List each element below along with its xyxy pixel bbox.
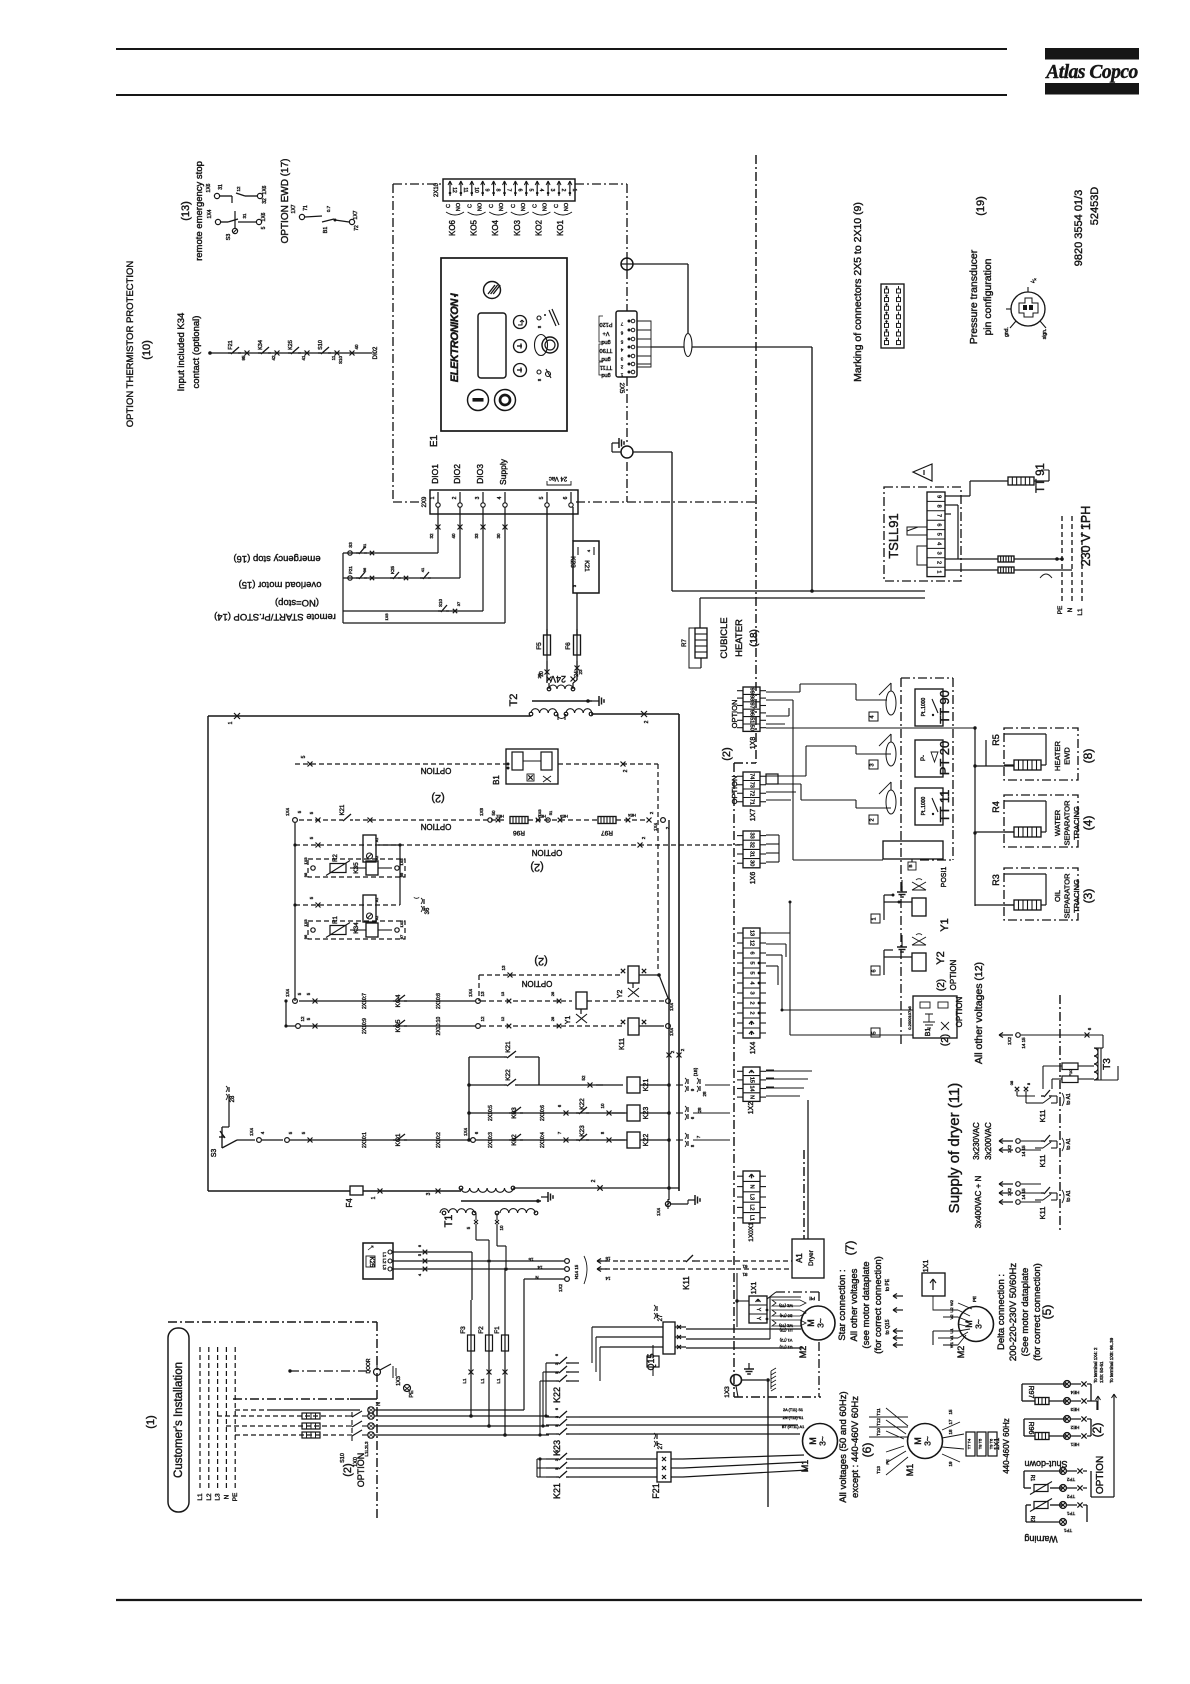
svg-text:TP2: TP2	[1066, 1494, 1075, 1499]
svg-text:U1 (T1): U1 (T1)	[779, 1345, 793, 1349]
svg-text:to A1: to A1	[1066, 1190, 1072, 1202]
svg-text:E1: E1	[429, 434, 440, 447]
svg-text:K11: K11	[682, 1276, 691, 1290]
svg-text:28: 28	[702, 1091, 707, 1097]
svg-text:WATER: WATER	[1053, 809, 1062, 836]
svg-text:to A1: to A1	[1066, 1138, 1072, 1150]
svg-text:14 15: 14 15	[1021, 1188, 1026, 1200]
svg-text:28: 28	[697, 1107, 702, 1113]
svg-text:6: 6	[936, 523, 942, 526]
svg-text:1X4: 1X4	[653, 823, 658, 832]
svg-text:ELEKTRONIKON I: ELEKTRONIKON I	[449, 292, 461, 382]
svg-text:(5): (5)	[1040, 1305, 1054, 1320]
svg-text:50: 50	[749, 725, 755, 731]
svg-text:1: 1	[872, 917, 878, 920]
svg-text:M1: M1	[905, 1464, 915, 1477]
svg-text:2X9: 2X9	[422, 496, 428, 507]
svg-text:2X10:7: 2X10:7	[362, 993, 368, 1009]
svg-text:KO5: KO5	[470, 219, 479, 236]
svg-text:31: 31	[218, 184, 224, 190]
svg-text:52453D: 52453D	[1089, 187, 1101, 226]
svg-text:1X1: 1X1	[923, 1260, 930, 1273]
svg-text:R2: R2	[333, 854, 339, 862]
svg-text:3: 3	[936, 552, 942, 555]
svg-text:71: 71	[749, 799, 755, 805]
svg-text:1: 1	[430, 496, 436, 499]
svg-text:(2): (2)	[534, 955, 547, 967]
svg-text:1X8: 1X8	[399, 858, 404, 866]
svg-text:A1: A1	[375, 838, 379, 842]
svg-text:24V: 24V	[550, 674, 566, 684]
svg-text:PE: PE	[409, 1390, 415, 1398]
svg-text:14 15: 14 15	[1021, 1037, 1026, 1049]
svg-text:31: 31	[749, 851, 755, 857]
svg-text:W2 (T5): W2 (T5)	[778, 1304, 792, 1308]
svg-text:97: 97	[399, 934, 404, 939]
svg-text:All other voltages (12): All other voltages (12)	[973, 962, 985, 1064]
svg-text:1X7: 1X7	[750, 809, 757, 822]
svg-text:(7): (7)	[843, 1241, 857, 1256]
svg-text:(19): (19)	[975, 196, 987, 216]
svg-text:HE3: HE3	[1070, 1407, 1079, 1412]
svg-text:TP1: TP1	[1063, 1528, 1072, 1533]
svg-text:N: N	[223, 1494, 230, 1499]
svg-text:M: M	[806, 1319, 816, 1327]
svg-text:7: 7	[936, 514, 942, 517]
svg-text:K11: K11	[1038, 1207, 1047, 1220]
svg-text:96: 96	[303, 934, 308, 939]
svg-text:(10): (10)	[141, 340, 153, 360]
svg-text:V2: V2	[949, 1314, 954, 1320]
svg-text:N: N	[749, 1095, 755, 1099]
svg-text:2: 2	[749, 1001, 755, 1004]
svg-text:5: 5	[872, 1031, 878, 1034]
svg-text:F6: F6	[565, 642, 572, 650]
svg-text:1X4: 1X4	[285, 808, 290, 817]
svg-text:K23: K23	[569, 556, 576, 568]
svg-text:gnd.: gnd.	[1004, 327, 1010, 337]
svg-text:K11: K11	[1038, 1155, 1047, 1168]
svg-text:N: N	[749, 1185, 755, 1189]
svg-text:9: 9	[484, 189, 490, 192]
svg-text:40: 40	[451, 533, 456, 539]
svg-text:remote START/Pr.STOP (14): remote START/Pr.STOP (14)	[214, 611, 336, 622]
svg-text:Input included K34: Input included K34	[176, 313, 187, 392]
svg-text:3x230VAC: 3x230VAC	[972, 1122, 981, 1160]
svg-text:0.2000107o8: 0.2000107o8	[907, 1006, 912, 1030]
svg-text:DIO2: DIO2	[452, 464, 462, 484]
svg-text:24 Vac: 24 Vac	[549, 475, 567, 481]
svg-text:K11: K11	[1038, 1110, 1047, 1123]
svg-text:3~: 3~	[923, 1436, 933, 1446]
svg-text:NO: NO	[564, 202, 570, 211]
svg-text:K23: K23	[552, 1440, 562, 1456]
svg-text:T1: T1	[443, 1215, 455, 1228]
svg-text:TP2: TP2	[1066, 1477, 1075, 1482]
svg-text:F3: F3	[460, 1326, 467, 1334]
svg-text:pin configuration: pin configuration	[982, 258, 994, 335]
svg-text:M: M	[808, 1437, 818, 1445]
svg-text:K34: K34	[258, 340, 264, 350]
svg-text:R3: R3	[991, 874, 1001, 886]
svg-text:R1: R1	[1029, 1475, 1035, 1482]
svg-text:1: 1	[228, 721, 234, 724]
svg-text:2: 2	[936, 561, 942, 564]
svg-text:Star connection :: Star connection :	[837, 1269, 848, 1340]
svg-text:3~: 3~	[816, 1318, 826, 1328]
svg-text:HE2: HE2	[1070, 1425, 1079, 1430]
svg-text:1X4: 1X4	[669, 1003, 674, 1012]
svg-text:96: 96	[362, 567, 367, 572]
svg-text:C: C	[511, 204, 517, 208]
svg-text:30: 30	[749, 860, 755, 866]
svg-text:OPTION THERMISTOR PROTECTION: OPTION THERMISTOR PROTECTION	[125, 261, 136, 428]
svg-text:5: 5	[527, 189, 533, 192]
svg-text:Y: Y	[755, 1317, 761, 1321]
svg-text:1X8: 1X8	[537, 809, 542, 817]
svg-text:K03: K03	[511, 1107, 518, 1119]
svg-text:(4): (4)	[1081, 816, 1095, 831]
svg-text:18: 18	[948, 1429, 953, 1435]
svg-text:K25: K25	[288, 340, 294, 350]
svg-text:S10: S10	[340, 1453, 346, 1463]
svg-text:P-: P-	[921, 755, 927, 761]
svg-text:12: 12	[480, 1016, 485, 1022]
svg-text:96: 96	[749, 710, 755, 716]
svg-text:A2: A2	[375, 916, 379, 920]
svg-text:3: 3	[426, 1192, 432, 1195]
svg-text:74: 74	[749, 773, 755, 779]
svg-text:M: M	[913, 1437, 923, 1445]
svg-text:51: 51	[749, 717, 755, 723]
svg-text:R7: R7	[682, 639, 688, 647]
svg-text:12: 12	[451, 187, 457, 193]
svg-text:13: 13	[749, 930, 755, 936]
svg-text:L1: L1	[480, 1378, 485, 1384]
svg-text:K21: K21	[583, 560, 590, 572]
svg-text:51: 51	[548, 810, 553, 815]
svg-text:Y2: Y2	[935, 951, 947, 964]
svg-text:K22: K22	[505, 1069, 512, 1081]
svg-text:T12: T12	[876, 1418, 881, 1426]
svg-text:contact (optional): contact (optional)	[191, 316, 202, 389]
svg-text:DI02: DI02	[373, 346, 379, 359]
svg-text:1X6: 1X6	[261, 212, 267, 221]
svg-text:11: 11	[331, 355, 336, 360]
svg-text:2X10:3: 2X10:3	[488, 1132, 494, 1148]
svg-text:Customer's Installation: Customer's Installation	[173, 1362, 185, 1478]
svg-text:08: 08	[1009, 1080, 1014, 1085]
svg-text:HE1: HE1	[1070, 1442, 1079, 1447]
svg-text:4: 4	[870, 715, 876, 718]
svg-text:72: 72	[354, 225, 360, 231]
svg-text:3~: 3~	[818, 1436, 828, 1446]
svg-text:B: B	[908, 864, 913, 867]
svg-text:NO: NO	[542, 202, 548, 211]
svg-text:HE4: HE4	[627, 813, 636, 818]
svg-text:(6): (6)	[860, 1443, 874, 1458]
svg-text:A1: A1	[795, 1253, 804, 1263]
svg-text:PE: PE	[885, 1459, 890, 1465]
svg-text:9820 3554 01/3: 9820 3554 01/3	[1073, 190, 1085, 266]
svg-text:1X2: 1X2	[1007, 1145, 1012, 1154]
svg-text:TT90: TT90	[600, 347, 613, 353]
svg-text:Y: Y	[755, 1308, 761, 1312]
svg-text:6: 6	[872, 969, 878, 972]
svg-text:40: 40	[354, 344, 359, 350]
svg-text:B5 (T4): B5 (T4)	[779, 1314, 792, 1318]
svg-text:OPTION: OPTION	[420, 766, 451, 775]
svg-text:3x200VAC: 3x200VAC	[984, 1122, 993, 1160]
svg-text:13: 13	[500, 991, 505, 996]
svg-text:F21: F21	[228, 340, 234, 349]
svg-text:Pressure transducer: Pressure transducer	[968, 249, 980, 344]
svg-text:98: 98	[749, 695, 755, 701]
svg-text:1X8: 1X8	[479, 808, 484, 817]
svg-text:200-220-230V 50/60Hz: 200-220-230V 50/60Hz	[1008, 1263, 1019, 1361]
svg-text:36: 36	[425, 907, 431, 914]
svg-text:27: 27	[658, 1314, 664, 1321]
svg-text:1X3: 1X3	[724, 1386, 731, 1398]
svg-text:97: 97	[749, 702, 755, 708]
svg-text:K22: K22	[552, 1387, 562, 1403]
svg-text:99: 99	[399, 872, 404, 877]
svg-text:NO: NO	[521, 202, 527, 211]
svg-text:T11: T11	[876, 1408, 881, 1416]
svg-text:73: 73	[749, 782, 755, 788]
svg-text:1X2: 1X2	[558, 1284, 563, 1293]
svg-text:CUBICLE: CUBICLE	[719, 617, 730, 658]
svg-text:1: 1	[371, 1196, 377, 1199]
svg-text:1X4: 1X4	[207, 209, 213, 218]
svg-text:15: 15	[948, 1409, 953, 1415]
svg-text:P120: P120	[600, 321, 613, 327]
svg-text:OPTION EWD (17): OPTION EWD (17)	[280, 158, 291, 243]
svg-text:7: 7	[506, 189, 512, 192]
svg-text:(8): (8)	[1081, 749, 1095, 764]
svg-text:(2): (2)	[721, 747, 733, 760]
svg-text:T7 T4: T7 T4	[967, 1438, 972, 1449]
svg-text:OPTION: OPTION	[356, 1453, 366, 1488]
svg-text:To terminal 1X8: 96..39: To terminal 1X8: 96..39	[1109, 1337, 1114, 1383]
svg-text:Pt..1000: Pt..1000	[921, 697, 927, 716]
svg-text:50: 50	[491, 810, 496, 816]
svg-text:F2: F2	[478, 1326, 485, 1334]
svg-text:B1: B1	[323, 227, 329, 234]
svg-text:2X10:2: 2X10:2	[436, 1132, 442, 1148]
svg-text:51: 51	[362, 543, 367, 548]
svg-text:to Q15: to Q15	[885, 1319, 891, 1334]
svg-text:1X6: 1X6	[384, 613, 389, 621]
svg-text:1X8: 50-51: 1X8: 50-51	[1099, 1361, 1104, 1383]
svg-text:95: 95	[241, 355, 246, 361]
svg-text:10: 10	[473, 187, 479, 193]
svg-text:L1: L1	[496, 1378, 501, 1384]
svg-text:N: N	[1067, 607, 1074, 612]
svg-text:to A1: to A1	[1066, 1093, 1072, 1105]
svg-text:to PE: to PE	[885, 1278, 891, 1291]
svg-text:(1B): (1B)	[693, 1067, 698, 1076]
svg-text:28: 28	[550, 991, 555, 996]
svg-text:K25: K25	[390, 566, 395, 575]
svg-text:K02: K02	[511, 1134, 518, 1146]
svg-text:1X1: 1X1	[751, 1282, 758, 1295]
svg-text:(2): (2)	[431, 792, 444, 804]
svg-text:TRACING: TRACING	[1072, 806, 1081, 840]
svg-text:B1: B1	[492, 775, 501, 785]
svg-text:6: 6	[563, 496, 569, 499]
svg-text:1X7: 1X7	[353, 210, 359, 219]
svg-text:12: 12	[300, 1016, 305, 1022]
svg-text:L3: L3	[749, 1194, 755, 1200]
svg-text:K11: K11	[619, 1038, 626, 1050]
svg-text:N14 15: N14 15	[574, 1264, 579, 1279]
svg-text:6: 6	[749, 951, 755, 954]
svg-text:R4: R4	[991, 801, 1001, 813]
svg-text:M2: M2	[956, 1346, 966, 1359]
svg-text:1X7: 1X7	[291, 204, 297, 213]
svg-text:1X8: 1X8	[399, 920, 404, 928]
svg-text:4: 4	[497, 496, 503, 499]
svg-text:DIO3: DIO3	[475, 464, 485, 484]
svg-text:F10: F10	[1068, 1069, 1073, 1077]
svg-text:5: 5	[936, 533, 942, 536]
svg-text:(See motor dataplate: (See motor dataplate	[1020, 1268, 1031, 1357]
svg-text:14: 14	[537, 1265, 543, 1270]
svg-text:1X3: 1X3	[396, 1376, 402, 1386]
svg-text:PE: PE	[1057, 605, 1064, 614]
svg-text:S10: S10	[438, 599, 443, 608]
svg-text:F1: F1	[494, 1326, 501, 1334]
svg-text:12: 12	[749, 940, 755, 946]
svg-text:1X4: 1X4	[669, 1028, 674, 1037]
svg-text:230 V 1PH: 230 V 1PH	[1079, 506, 1093, 566]
svg-text:(2): (2)	[936, 979, 947, 991]
svg-text:F4: F4	[345, 1198, 354, 1208]
svg-text:(18): (18)	[749, 629, 760, 647]
svg-text:5: 5	[301, 755, 307, 758]
svg-text:U1 (T3): U1 (T3)	[779, 1328, 793, 1332]
svg-text:T10: T10	[876, 1428, 881, 1436]
svg-text:1X4: 1X4	[468, 989, 473, 998]
svg-text:1X2: 1X2	[748, 1102, 755, 1115]
svg-text:2X10:8: 2X10:8	[436, 993, 442, 1009]
svg-text:TP1: TP1	[1066, 1511, 1075, 1516]
svg-text:1X6: 1X6	[262, 185, 268, 194]
svg-text:KO4: KO4	[395, 994, 402, 1007]
svg-text:1X8: 1X8	[750, 737, 757, 750]
svg-text:33: 33	[749, 833, 755, 839]
svg-text:2X10:5: 2X10:5	[488, 1105, 494, 1121]
svg-text:2: 2	[749, 1011, 755, 1014]
svg-text:5: 5	[749, 971, 755, 974]
svg-text:5: 5	[749, 961, 755, 964]
svg-text:PE: PE	[972, 1296, 977, 1302]
svg-text:41: 41	[301, 355, 306, 361]
svg-text:23: 23	[578, 669, 583, 675]
svg-text:2X10:6: 2X10:6	[540, 1105, 546, 1121]
svg-text:K23: K23	[579, 1125, 586, 1137]
svg-text:27: 27	[658, 1442, 664, 1449]
svg-text:9: 9	[936, 495, 942, 498]
svg-text:HEATER: HEATER	[734, 619, 745, 657]
svg-text:(see motor dataplate: (see motor dataplate	[861, 1261, 872, 1348]
svg-text:B1: B1	[925, 1028, 932, 1037]
svg-text:98: 98	[303, 872, 308, 877]
svg-text:R97: R97	[1027, 1386, 1034, 1399]
svg-text:Atlas Copco: Atlas Copco	[1044, 62, 1138, 83]
svg-text:A1: A1	[375, 898, 379, 902]
svg-text:1X6: 1X6	[206, 183, 212, 192]
svg-text:S3: S3	[226, 234, 232, 241]
svg-text:R97: R97	[601, 829, 613, 836]
svg-text:Supply: Supply	[498, 458, 508, 485]
svg-text:SEPARATOR: SEPARATOR	[1063, 873, 1072, 919]
svg-text:C: C	[468, 204, 474, 208]
svg-text:B7 (0T1L) A1: B7 (0T1L) A1	[782, 1425, 804, 1429]
svg-text:(2): (2)	[1090, 1423, 1104, 1438]
svg-text:C: C	[489, 204, 495, 208]
svg-text:EWD: EWD	[1063, 747, 1072, 765]
svg-text:2X10:1: 2X10:1	[362, 1132, 368, 1148]
svg-text:1: 1	[571, 189, 577, 192]
svg-text:Warning: Warning	[1024, 1534, 1057, 1544]
svg-text:28: 28	[550, 1016, 555, 1021]
svg-text:1X1: 1X1	[994, 1438, 1001, 1451]
svg-text:T2: T2	[508, 694, 520, 707]
svg-text:M: M	[964, 1320, 974, 1328]
svg-text:4: 4	[749, 981, 755, 984]
svg-text:32: 32	[749, 842, 755, 848]
svg-text:15: 15	[749, 1077, 755, 1083]
svg-text:1X8: 1X8	[303, 919, 308, 927]
svg-text:1X4: 1X4	[249, 1128, 254, 1137]
svg-text:(for correct connection): (for correct connection)	[873, 1256, 884, 1354]
svg-text:L1: L1	[749, 1215, 755, 1221]
svg-text:OPTION: OPTION	[1095, 1456, 1106, 1494]
svg-text:52: 52	[581, 1075, 586, 1081]
svg-text:C: C	[532, 204, 538, 208]
svg-text:20: 20	[537, 673, 542, 679]
svg-text:TSLL91: TSLL91	[886, 513, 901, 559]
svg-text:S3: S3	[348, 542, 353, 548]
svg-text:emergency stop (16): emergency stop (16)	[233, 553, 320, 564]
svg-text:K21: K21	[505, 1041, 512, 1053]
svg-text:K34: K34	[353, 922, 360, 934]
svg-text:(2): (2)	[530, 861, 543, 873]
svg-text:2: 2	[560, 189, 566, 192]
svg-text:3: 3	[549, 189, 555, 192]
svg-text:41: 41	[420, 567, 425, 572]
svg-text:32: 32	[262, 198, 268, 204]
svg-text:HE1: HE1	[495, 814, 504, 819]
svg-text:2A (T11) S1: 2A (T11) S1	[783, 1408, 803, 1412]
svg-text:Pt..1000: Pt..1000	[921, 796, 927, 815]
svg-text:3x400VAC + N: 3x400VAC + N	[974, 1176, 983, 1229]
svg-text:Supply of dryer (11): Supply of dryer (11)	[946, 1083, 963, 1214]
svg-text:PT 20: PT 20	[937, 741, 952, 775]
svg-text:All other voltages: All other voltages	[849, 1268, 860, 1341]
svg-text:2X10:10: 2X10:10	[436, 1016, 442, 1035]
svg-text:12: 12	[500, 1016, 505, 1021]
svg-text:32: 32	[429, 533, 434, 539]
svg-text:17: 17	[948, 1419, 953, 1425]
svg-text:S10: S10	[318, 340, 324, 350]
svg-text:KO2: KO2	[534, 219, 543, 236]
svg-text:TT 90: TT 90	[937, 690, 952, 724]
svg-text:T8 T5: T8 T5	[978, 1438, 983, 1449]
svg-text:NO: NO	[499, 202, 505, 211]
